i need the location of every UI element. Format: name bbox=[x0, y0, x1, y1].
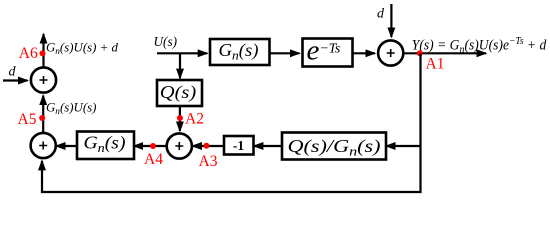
node A2 dot bbox=[177, 115, 183, 121]
block Q(s)/Gn(s) bbox=[282, 133, 386, 160]
svg-text:A5: A5 bbox=[18, 111, 37, 128]
svg-text:U(s): U(s) bbox=[154, 34, 178, 49]
wire S4 output up bbox=[42, 34, 44, 67]
svg-text:Gn(s)U(s): Gn(s)U(s) bbox=[46, 101, 97, 117]
wire Gn(s) lower to summer S3 bbox=[56, 145, 77, 147]
wire branch down to Q(s) bbox=[179, 53, 181, 78]
svg-text:d: d bbox=[377, 7, 385, 22]
svg-text:−Ts: −Ts bbox=[320, 42, 341, 57]
wire S3 up to summer S4 bbox=[42, 96, 44, 133]
block Q(s) bbox=[157, 80, 202, 106]
svg-text:A4: A4 bbox=[144, 151, 163, 168]
wire U(s) input into Gn(s) bbox=[157, 52, 207, 54]
svg-text:A1: A1 bbox=[426, 56, 445, 73]
node A3 dot bbox=[203, 143, 209, 149]
summing junction S3 bottom left bbox=[31, 133, 56, 158]
node A4 dot bbox=[150, 143, 156, 149]
svg-text:A2: A2 bbox=[185, 111, 204, 128]
wire d into summer S4 bbox=[3, 79, 28, 81]
wire Q(s)/Gn(s) to -1 bbox=[254, 145, 282, 147]
svg-text:A3: A3 bbox=[199, 153, 218, 170]
summing junction S4 upper left bbox=[31, 67, 56, 92]
svg-text:Gn(s): Gn(s) bbox=[219, 40, 259, 63]
svg-text:Q(s): Q(s) bbox=[160, 82, 197, 103]
svg-text:-1: -1 bbox=[233, 138, 244, 153]
wire feedback vertical from A1 bbox=[419, 53, 421, 191]
wire bottom feedback up into S3 bbox=[41, 161, 43, 166]
svg-text:e: e bbox=[307, 35, 320, 67]
wire e-Ts to summer S1 bbox=[353, 52, 376, 54]
wire Q(s) down into summer S2 bbox=[179, 106, 181, 131]
wire output Y(s) bbox=[404, 52, 487, 54]
summing junction S1 top right bbox=[378, 40, 403, 65]
wire -1 to summer S2 bbox=[192, 145, 224, 147]
block Gn(s) lower left bbox=[77, 132, 134, 160]
wire feedback into Q(s)/Gn(s) bbox=[386, 145, 421, 147]
block Gn(s) top bbox=[210, 39, 270, 65]
wire Gn(s) to e-Ts bbox=[270, 52, 300, 54]
wire S2 to Gn(s) lower bbox=[134, 145, 167, 147]
svg-text:Gn(s): Gn(s) bbox=[84, 133, 126, 156]
svg-text:d: d bbox=[9, 65, 17, 80]
svg-text:A6: A6 bbox=[19, 45, 38, 62]
wire bottom feedback horizontal bbox=[42, 161, 421, 192]
block e^-Ts delay bbox=[303, 35, 353, 67]
block -1 gain bbox=[224, 136, 254, 155]
svg-text:Q(s)/Gn(s): Q(s)/Gn(s) bbox=[288, 136, 381, 159]
wire d down into summer S1 bbox=[390, 4, 392, 37]
svg-text:Y(s) = Gn(s)U(s)e−Ts + d: Y(s) = Gn(s)U(s)e−Ts + d bbox=[412, 36, 547, 56]
node A1 dot bbox=[417, 50, 423, 56]
node A6 dot bbox=[40, 50, 46, 56]
node A5 dot bbox=[39, 115, 45, 121]
summing junction S2 middle bbox=[167, 133, 192, 158]
